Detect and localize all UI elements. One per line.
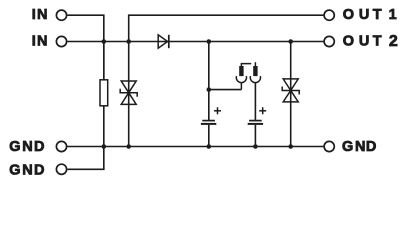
svg-text:GND: GND — [342, 139, 376, 155]
svg-text:GND: GND — [9, 139, 44, 155]
svg-text:2: 2 — [389, 33, 398, 50]
svg-text:IN: IN — [32, 34, 48, 50]
svg-text:OUT: OUT — [343, 34, 382, 50]
svg-text:OUT: OUT — [343, 7, 382, 23]
svg-text:IN: IN — [32, 7, 48, 23]
svg-text:1: 1 — [389, 7, 397, 23]
svg-text:GND: GND — [9, 162, 44, 178]
